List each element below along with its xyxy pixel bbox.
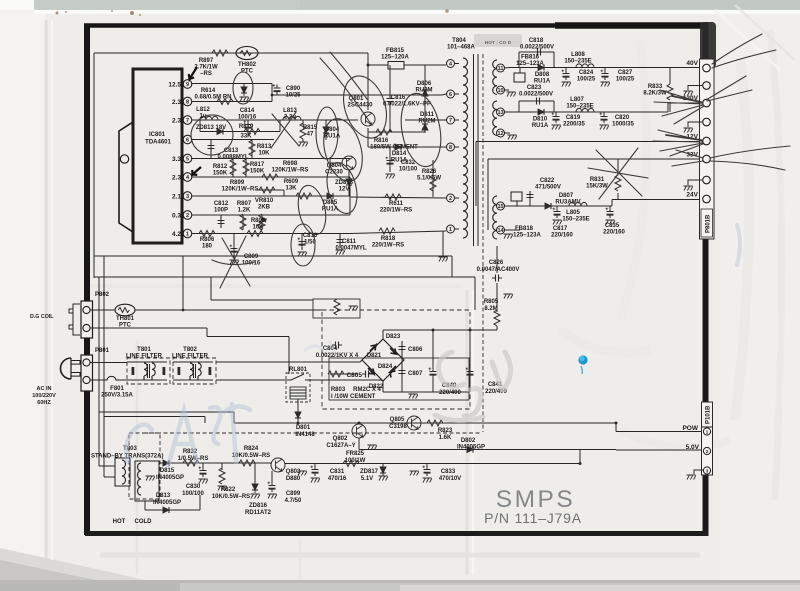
P101B pin 1 [703, 428, 710, 435]
diode D805 [322, 193, 339, 213]
resistor R818 [372, 228, 404, 249]
diode D824 [368, 364, 393, 374]
capacitor C820 [600, 112, 635, 130]
pen scribble oval C810 [291, 224, 315, 266]
pen scribble X near C814 [271, 112, 299, 148]
svg-text:10K: 10K [258, 151, 270, 157]
wire riser x211 [211, 277, 313, 300]
transformer T803 dashed box [129, 433, 160, 499]
faint gray handwriting center [435, 352, 511, 421]
connector P801 [81, 355, 93, 391]
svg-text:D801: D801 [296, 425, 311, 431]
wire pin7 net [192, 119, 446, 121]
pen starburst at 33V [672, 146, 790, 170]
resistor R899 [222, 180, 284, 196]
pen scribble X over R831 [588, 148, 648, 199]
diode D822 [369, 366, 396, 390]
faint blue handwriting bottom-left [126, 404, 250, 466]
P101B pin 3 [687, 467, 711, 480]
diode D823 [370, 334, 401, 351]
svg-text:C806: C806 [408, 347, 423, 353]
inductor L813 [283, 108, 301, 121]
svg-text:10/25: 10/25 [285, 93, 301, 99]
svg-text:D.G COIL: D.G COIL [30, 314, 54, 320]
transistor Q805 [389, 416, 421, 430]
pen scribble oval D804 [316, 107, 338, 159]
svg-text:L805: L805 [566, 210, 580, 216]
resistor R831 [586, 159, 621, 200]
svg-text:R806: R806 [200, 237, 215, 243]
resistor R816 [368, 128, 425, 151]
svg-text:R812: R812 [213, 164, 228, 170]
svg-text:FB815: FB815 [386, 48, 405, 54]
thermistor TH801 [90, 304, 135, 328]
svg-text:5.0V: 5.0V [686, 444, 700, 451]
svg-text:60HZ: 60HZ [37, 400, 51, 406]
svg-text:24V: 24V [686, 192, 698, 199]
svg-text:RL801: RL801 [289, 367, 308, 373]
wire TH801 rail [135, 309, 322, 311]
pen scribble oval D811 D814 [396, 90, 446, 169]
ferrite bead FB818 [511, 192, 542, 239]
svg-text:100/220V: 100/220V [32, 393, 56, 399]
svg-text:I /10W CEMENT: I /10W CEMENT [331, 394, 376, 400]
resistor R815 [299, 120, 318, 147]
svg-text:470/10V: 470/10V [439, 476, 461, 482]
svg-text:12V: 12V [339, 187, 350, 193]
transformer T804 label smudge [474, 34, 522, 47]
inductor L807 [566, 97, 594, 112]
resistor R832 [178, 449, 209, 466]
svg-text:4.7/50: 4.7/50 [285, 498, 302, 504]
svg-text:D815: D815 [160, 468, 175, 474]
svg-text:R897: R897 [199, 58, 214, 64]
capacitor C814 [238, 108, 257, 132]
svg-text:220/400: 220/400 [439, 390, 461, 396]
wire ZD813 branch [200, 120, 280, 132]
svg-text:0.0047MYL: 0.0047MYL [335, 246, 366, 252]
svg-text:1000/35: 1000/35 [612, 122, 634, 128]
resistor R614 [194, 88, 233, 105]
diode D811 [418, 112, 435, 133]
svg-text:10K/0.5W–RS: 10K/0.5W–RS [212, 494, 250, 500]
svg-text:C816: C816 [391, 95, 406, 101]
wire left vertical bus [93, 53, 95, 278]
svg-text:R818: R818 [381, 236, 396, 242]
svg-text:L808: L808 [571, 52, 585, 58]
schematic border frame right [703, 23, 709, 536]
inductor L812 [196, 107, 218, 120]
diode D806 [415, 65, 432, 132]
svg-text:P801B: P801B [706, 214, 712, 233]
svg-text:8.2M: 8.2M [484, 306, 497, 312]
wire POW rail [234, 423, 703, 432]
svg-text:RU1A: RU1A [534, 79, 551, 85]
capacitor C804 label [316, 342, 359, 360]
capacitor C813 [208, 140, 249, 161]
svg-text:D880: D880 [286, 476, 301, 482]
pen scribble oval Q804 [317, 114, 368, 185]
T804 pin 12 [497, 129, 505, 137]
svg-text:SMPS: SMPS [496, 486, 575, 513]
bridge rectifier diamond [362, 339, 404, 381]
diode D815 [156, 460, 272, 481]
resistor R806 [199, 231, 215, 250]
IC801 pin 2 [172, 211, 192, 220]
svg-text:P802: P802 [95, 292, 110, 298]
svg-text:D814: D814 [392, 151, 407, 157]
svg-text:C832: C832 [401, 160, 416, 166]
svg-text:FB816: FB816 [521, 55, 540, 61]
IC801 pin 1 [172, 229, 192, 238]
IC801 pin 9 [168, 80, 191, 89]
diode D808 [534, 65, 551, 85]
svg-text:IN4005GP: IN4005GP [156, 475, 184, 481]
svg-text:C827: C827 [618, 70, 633, 76]
IC801 pin 7 [172, 116, 192, 125]
svg-text:2.3: 2.3 [172, 175, 181, 182]
resistor R833 [643, 68, 673, 113]
svg-text:10: 10 [497, 88, 503, 94]
transformer T803 secondary [135, 461, 159, 501]
wire pin9 net [192, 84, 446, 96]
resistor R826 [417, 160, 441, 197]
capacitor C822 [527, 178, 561, 206]
svg-text:C811: C811 [342, 239, 357, 245]
svg-text:C818: C818 [529, 38, 544, 44]
svg-text:D811: D811 [420, 112, 435, 118]
svg-text:RD11AT2: RD11AT2 [245, 510, 272, 516]
pen scribble X over C809 [212, 236, 255, 288]
pen starburst at 12V [653, 130, 703, 156]
transistor Q803 [271, 458, 301, 482]
svg-text:COLD: COLD [135, 519, 153, 525]
svg-text:10K: 10K [252, 225, 264, 231]
svg-text:C809: C809 [244, 254, 259, 260]
capacitor C835 [603, 206, 625, 236]
svg-text:12: 12 [497, 131, 503, 137]
svg-text:7: 7 [186, 118, 189, 124]
svg-text:FR825: FR825 [346, 451, 365, 457]
zener ZD813 [196, 125, 226, 135]
T804 pin 1 [447, 225, 460, 233]
svg-text:HOT: HOT [113, 519, 126, 525]
line filter T802 [172, 347, 216, 384]
svg-text:250V/3.15A: 250V/3.15A [101, 393, 133, 399]
T804 pin 4 [447, 60, 460, 68]
T804 pin 10 [497, 86, 505, 94]
diode D807 [542, 193, 581, 209]
svg-text:1.2K: 1.2K [238, 208, 251, 214]
wire 33V rail [488, 159, 700, 230]
svg-text:33K: 33K [240, 134, 252, 140]
IC801 inner polygon symbol [119, 122, 133, 232]
svg-text:LINE FILTER: LINE FILTER [172, 354, 209, 360]
svg-text:0.3: 0.3 [172, 213, 181, 220]
wire pin2 net [192, 214, 350, 216]
svg-text:220/1W–RS: 220/1W–RS [380, 208, 412, 214]
op-amp/regulator IC801 TDA4601 body [133, 69, 182, 243]
svg-text:C899: C899 [286, 491, 301, 497]
svg-text:120K/1W–RS: 120K/1W–RS [222, 187, 259, 193]
wire AC bottom line [120, 380, 383, 381]
svg-text:1: 1 [449, 227, 452, 233]
svg-text:101–468A: 101–468A [447, 45, 475, 51]
svg-text:220/160: 220/160 [603, 230, 625, 236]
svg-text:T804: T804 [452, 38, 466, 44]
pen starburst at 40V [712, 34, 776, 68]
svg-text:IN4005GP: IN4005GP [153, 500, 181, 506]
AC plug [61, 358, 81, 379]
resistor R812 [213, 159, 236, 178]
capacitor C826 [477, 246, 520, 310]
IC801 pin 6 [183, 135, 192, 144]
wire mid rail D802 [359, 449, 703, 452]
svg-text:C810: C810 [303, 233, 318, 239]
transformer T804 secondary winding upper [493, 60, 497, 94]
resistor FR825 [343, 451, 366, 467]
svg-text:C831: C831 [330, 469, 345, 475]
svg-text:D810: D810 [533, 117, 548, 123]
pen starburst at 120V [654, 76, 752, 124]
svg-text:D824: D824 [378, 364, 393, 370]
capacitor C833 [410, 464, 462, 483]
svg-text:125–120A: 125–120A [381, 55, 409, 61]
svg-text:15: 15 [497, 204, 503, 210]
svg-text:C835: C835 [605, 223, 620, 229]
thermistor TH802 [236, 47, 258, 75]
P801B pin 12V [686, 134, 710, 145]
svg-text:5: 5 [186, 157, 189, 163]
connector P801B body [700, 59, 715, 239]
svg-text:C805: C805 [346, 372, 362, 379]
svg-text:T801: T801 [137, 347, 151, 353]
capacitor C810 [298, 233, 318, 257]
svg-text:11: 11 [498, 66, 504, 72]
schematic border frame bottom [85, 531, 708, 536]
svg-text:D813: D813 [156, 493, 171, 499]
resistor R611 [350, 194, 446, 214]
capacitor C811 [335, 234, 366, 255]
svg-text:100/1W: 100/1W [345, 458, 366, 464]
pen scribble oval ZD818 [322, 159, 362, 216]
wire 120V rail [505, 103, 701, 112]
transformer T803 primary [99, 458, 130, 486]
capacitor C899 [268, 471, 303, 504]
P801B pin 24V [686, 192, 710, 203]
svg-text:C812: C812 [214, 201, 229, 207]
svg-text:F801: F801 [110, 386, 124, 392]
svg-text:C817: C817 [553, 226, 568, 232]
svg-text:C823: C823 [527, 85, 542, 91]
svg-text:C1627A–Y: C1627A–Y [326, 443, 355, 449]
schematic border frame top [84, 23, 708, 28]
svg-text:1/0.5W–RS: 1/0.5W–RS [178, 456, 209, 462]
svg-text:2.3: 2.3 [172, 99, 181, 106]
svg-text:P/N 111–J79A: P/N 111–J79A [484, 510, 582, 526]
ferrite bead FB816 [514, 55, 545, 83]
T804 pin 13 [497, 108, 505, 116]
svg-text:13: 13 [497, 110, 503, 116]
ground bridge [409, 394, 418, 399]
svg-text:8: 8 [449, 145, 452, 151]
svg-text:P101B: P101B [706, 405, 712, 424]
svg-text:R614: R614 [201, 88, 216, 94]
transistor Q801 [345, 96, 375, 126]
svg-text:220/160: 220/160 [551, 233, 573, 239]
resistor R824 [232, 446, 270, 466]
inductor L808 [564, 52, 594, 68]
svg-text:2.7K/1W: 2.7K/1W [194, 65, 218, 71]
connector P101B body [702, 402, 713, 475]
pen scribble oval Q801 [336, 70, 394, 143]
svg-text:2: 2 [186, 213, 189, 219]
svg-text:R805: R805 [484, 299, 499, 305]
svg-text:100/25: 100/25 [577, 77, 596, 83]
svg-text:C3198: C3198 [389, 424, 407, 430]
svg-text:7: 7 [449, 118, 452, 124]
svg-text:4.2: 4.2 [172, 231, 181, 238]
svg-text:15K/3W: 15K/3W [586, 184, 608, 190]
diode D801 [295, 409, 315, 438]
capacitor C890 [273, 84, 302, 99]
svg-text:47: 47 [307, 132, 314, 138]
border corner smudge top-right [700, 22, 716, 68]
svg-text:3: 3 [186, 194, 189, 200]
svg-text:8: 8 [186, 100, 189, 106]
wire pin1 net [192, 231, 446, 234]
transistor Q802 [326, 424, 376, 450]
T804 pin 7 [447, 116, 460, 124]
capacitor C806 [399, 341, 424, 392]
svg-text:ZD813 18V: ZD813 18V [196, 125, 226, 131]
wire pin10 ground [505, 90, 516, 97]
wire 24V lower rail [505, 200, 701, 207]
resistor R808 [247, 218, 266, 237]
svg-text:R833: R833 [648, 84, 663, 90]
resistor R897 [194, 50, 228, 77]
svg-text:2200/35: 2200/35 [563, 122, 585, 128]
diode D802 [457, 438, 485, 453]
svg-text:150K: 150K [213, 171, 228, 177]
zener ZD818 [335, 170, 354, 196]
svg-text:L807: L807 [570, 97, 584, 103]
svg-text:2.1: 2.1 [172, 194, 181, 201]
svg-text:150–235E: 150–235E [562, 217, 589, 223]
wire 5V feed rail [285, 450, 580, 464]
svg-text:3.3: 3.3 [172, 156, 181, 163]
svg-text:5.1/0.5W: 5.1/0.5W [417, 176, 441, 182]
svg-text:IN4148: IN4148 [295, 432, 315, 438]
svg-text:R817: R817 [250, 162, 265, 168]
capacitor C805 [346, 371, 372, 380]
pen scribble lines to Q801 [320, 52, 371, 124]
P801B pin nc3 [684, 176, 711, 190]
connector P802 [69, 301, 93, 338]
svg-text:R698: R698 [283, 161, 298, 167]
svg-text:C820: C820 [615, 115, 630, 121]
IC801 pin 4 [172, 173, 192, 182]
stain specks top [56, 12, 59, 15]
svg-text:RM2C X 4: RM2C X 4 [353, 387, 381, 393]
diode D813 [145, 493, 200, 513]
svg-text:C822: C822 [540, 178, 555, 184]
svg-text:2KB: 2KB [258, 205, 271, 211]
svg-text:ZD816: ZD816 [249, 503, 268, 509]
svg-text:D802: D802 [461, 438, 476, 444]
hand arrow at pin 4 [192, 167, 201, 175]
svg-text:C814: C814 [240, 108, 255, 114]
svg-text:0.0022/1.6KV–PP: 0.0022/1.6KV–PP [383, 102, 431, 108]
T804 pin 2 [447, 194, 460, 202]
svg-text:–RS: –RS [200, 71, 212, 77]
transformer T804 label [447, 38, 512, 51]
capacitor C831 [298, 464, 347, 483]
node vertical join [349, 177, 351, 215]
svg-text:RU2M: RU2M [418, 119, 435, 125]
svg-text:Q801: Q801 [349, 96, 364, 102]
zener ZD816 [245, 463, 272, 516]
IC801 pin 3 [172, 192, 192, 201]
svg-text:40V: 40V [686, 60, 698, 67]
P801B pin nc1 [684, 82, 711, 96]
svg-text:100/100: 100/100 [182, 491, 204, 497]
paper sheet highlights and shadows [0, 0, 800, 14]
diode D810 [532, 109, 549, 129]
diode D821 [367, 348, 396, 359]
svg-text:ZD817: ZD817 [360, 469, 379, 475]
diode D804 [323, 120, 341, 140]
transformer T803 labels [91, 446, 163, 460]
capacitor C807 [399, 367, 424, 377]
svg-text:C890: C890 [286, 86, 301, 92]
svg-text:2: 2 [449, 196, 452, 202]
label AC IN [32, 386, 56, 406]
svg-text:R808: R808 [251, 218, 266, 224]
resistor R805 [484, 294, 513, 330]
capacitor C840 [429, 330, 462, 396]
wire pin5 net [192, 158, 350, 160]
svg-text:10/100: 10/100 [399, 167, 418, 173]
isolation dashed boundary lower [144, 432, 480, 434]
svg-text:R824: R824 [244, 446, 259, 452]
transformer T804 secondary winding mid [493, 101, 497, 135]
P101B pin 2 [703, 447, 710, 454]
svg-text:RU1A: RU1A [532, 123, 549, 129]
wire pin8 net [192, 95, 272, 102]
wrinkle shading [45, 20, 48, 560]
svg-text:6: 6 [449, 92, 452, 98]
node dot TH801 riser [182, 309, 185, 312]
svg-text:100P: 100P [214, 208, 228, 214]
svg-text:R816: R816 [374, 138, 389, 144]
svg-text:D805: D805 [323, 200, 338, 206]
svg-text:AC IN: AC IN [37, 386, 52, 392]
svg-text:C819: C819 [566, 115, 581, 121]
svg-text:POW: POW [682, 425, 698, 432]
transformer T804 primary winding [463, 58, 468, 238]
wire P802 lower net [90, 328, 289, 374]
wire pin14 ground [504, 230, 521, 239]
svg-text:0.0047/AC400V: 0.0047/AC400V [477, 267, 520, 273]
P801B pin 40V [686, 60, 710, 72]
svg-text:C826: C826 [489, 260, 504, 266]
svg-text:100/25: 100/25 [616, 77, 635, 83]
pen scribble oval D805 [294, 183, 330, 237]
svg-text:C807: C807 [408, 371, 423, 377]
svg-text:P801: P801 [95, 348, 110, 354]
capacitor C816 [383, 65, 431, 132]
